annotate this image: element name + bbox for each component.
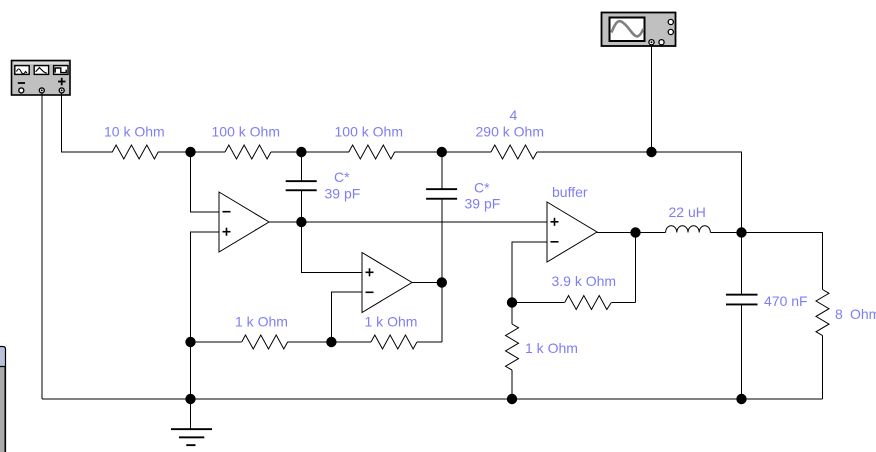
svg-text:C*: C* xyxy=(334,169,350,185)
capacitor C2 39 pF xyxy=(426,152,457,342)
capacitor C1 39 pF xyxy=(286,152,317,222)
svg-text:1 k Ohm: 1 k Ohm xyxy=(365,314,418,330)
ground xyxy=(171,399,212,446)
svg-text:39 pF: 39 pF xyxy=(325,186,361,202)
svg-text:39 pF: 39 pF xyxy=(465,196,501,212)
junction scope tap xyxy=(646,147,656,157)
svg-text:470 nF: 470 nF xyxy=(764,293,808,309)
wire R2 to R3 xyxy=(271,151,349,153)
junction U2 output xyxy=(437,277,447,287)
wire R4 right then down to output node xyxy=(537,152,742,233)
wire U1 output down and to op-amp U2 non-inverting input xyxy=(301,222,362,273)
resistor R4 290 k Ohm xyxy=(491,145,537,159)
wire R5 to R6 xyxy=(288,341,371,343)
resistor R9 1 k Ohm (vertical) xyxy=(506,303,519,400)
svg-text:4: 4 xyxy=(510,107,518,123)
wire 1k feedback row left xyxy=(191,341,242,343)
svg-text:8: 8 xyxy=(835,306,843,322)
wire node1 down to op-amp U1 inverting input xyxy=(191,152,220,212)
capacitor C3 470 nF xyxy=(726,233,758,400)
op-amp U1 xyxy=(219,192,269,252)
svg-text:C*: C* xyxy=(474,180,490,196)
svg-text:1 k Ohm: 1 k Ohm xyxy=(235,314,288,330)
minus terminal label xyxy=(18,82,25,84)
sine button xyxy=(15,66,29,75)
wire R1 to R2 xyxy=(158,151,225,153)
svg-text:100 k Ohm: 100 k Ohm xyxy=(212,124,280,140)
wire op-amp U1 output to buffer input xyxy=(269,221,547,223)
resistor R8 3.9 k Ohm xyxy=(565,296,612,310)
resistor R1 10 k Ohm xyxy=(112,145,158,159)
terminal plus xyxy=(59,88,64,93)
wire buffer feedback down from output node xyxy=(635,233,637,303)
junction 1k row mid xyxy=(326,337,336,347)
op-amp U2 xyxy=(362,253,412,313)
svg-text:3.9 k Ohm: 3.9 k Ohm xyxy=(552,273,617,289)
junction U1 output xyxy=(296,217,306,227)
junction ground rail mid xyxy=(507,394,517,404)
wire fn-gen plus terminal down to top rail xyxy=(62,93,113,152)
wire 3.9k row xyxy=(611,302,635,304)
wire feedback node to 3.9k xyxy=(512,302,565,304)
terminal minus xyxy=(19,88,24,93)
inductor L1 22 uH xyxy=(666,226,711,233)
resistor R5 1 k Ohm xyxy=(242,335,288,349)
oscilloscope XSC1 xyxy=(602,13,676,47)
svg-text:10 k Ohm: 10 k Ohm xyxy=(104,124,165,140)
wire buffer output to inductor xyxy=(597,232,666,234)
wire op-amp U2 output to cap C2 node xyxy=(412,282,442,284)
svg-text:22 uH: 22 uH xyxy=(669,204,706,220)
wire buffer inverting input left and down to feedback node xyxy=(512,242,547,303)
function generator XFG1 xyxy=(12,61,71,96)
wire inductor to output node and right to load xyxy=(710,233,822,290)
resistor R3 100 k Ohm xyxy=(349,145,395,159)
square button xyxy=(54,66,68,75)
wire op-amp U2 inverting input left and down xyxy=(331,292,362,342)
junction buffer feedback xyxy=(507,297,517,307)
wire oscilloscope probe down xyxy=(651,45,653,152)
wire node down to ground rail xyxy=(190,342,192,399)
wire R7 bottom to bottom rail xyxy=(822,336,824,399)
svg-text:290 k Ohm: 290 k Ohm xyxy=(476,124,544,140)
wire bottom rail xyxy=(42,398,823,400)
wire R3 to R4 xyxy=(395,151,491,153)
junction 1k row left xyxy=(185,337,195,347)
wire fn-gen common down to bottom rail xyxy=(41,93,43,399)
resistor R2 100 k Ohm xyxy=(225,145,271,159)
resistor R7 8 Ohm (vertical) xyxy=(816,290,829,336)
svg-text:100 k Ohm: 100 k Ohm xyxy=(335,124,403,140)
plus terminal label xyxy=(58,78,66,86)
wire op-amp U1 non-inverting input down to node at 1k feedback xyxy=(191,232,220,342)
junction node 3 (100k/290k/C2) xyxy=(437,147,447,157)
terminal common xyxy=(39,88,44,93)
junction ground rail right xyxy=(736,394,746,404)
svg-text:1 k Ohm: 1 k Ohm xyxy=(525,340,578,356)
buffer op-amp U3 xyxy=(547,202,597,262)
junction output node xyxy=(736,227,746,237)
wire R6 to C2 node xyxy=(417,341,442,343)
junction node 1 (10k/100k) xyxy=(185,147,195,157)
resistor R6 1 k Ohm xyxy=(371,335,417,349)
svg-text:Ohm: Ohm xyxy=(850,306,876,322)
junction buffer output xyxy=(630,227,640,237)
junction ground rail left xyxy=(185,394,195,404)
svg-text:buffer: buffer xyxy=(552,184,588,200)
triangle button xyxy=(34,66,48,75)
junction node 2 (100k/100k/C1) xyxy=(296,147,306,157)
window edge artifact (partial UI strip at left edge) xyxy=(0,347,6,452)
